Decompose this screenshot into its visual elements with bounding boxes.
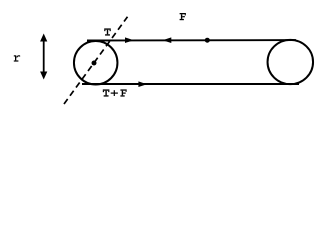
label F xyxy=(180,13,186,20)
belt bottom wire xyxy=(82,83,299,85)
arrow right on top wire (tension T direction) xyxy=(125,37,134,43)
pulley left (small) xyxy=(74,41,118,85)
label T+F xyxy=(103,89,127,96)
dashed axis line through left pulley xyxy=(64,17,128,104)
application point dot on top wire xyxy=(205,38,210,43)
arrow left on top wire (force F direction) xyxy=(163,37,172,43)
dimension double arrow (radius indicator) xyxy=(40,34,47,80)
label r xyxy=(14,55,20,61)
pulley left center dot xyxy=(92,61,97,66)
pulley right (large) xyxy=(268,40,314,84)
arrow right on bottom wire (T+F direction) xyxy=(138,81,147,87)
belt top wire xyxy=(87,39,296,41)
label T xyxy=(104,28,111,35)
